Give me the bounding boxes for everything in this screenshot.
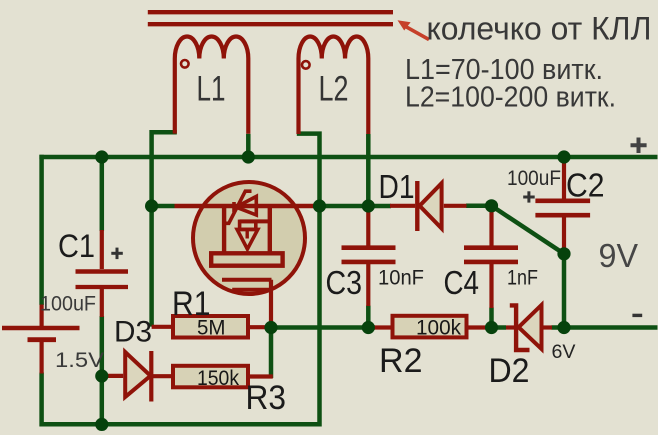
wire: C4 bottom lead [489, 308, 494, 328]
diode D1 [390, 181, 467, 231]
node C2/+rail [557, 150, 570, 163]
node C3/R2 [362, 321, 375, 334]
wire: gate node down to R1 [149, 206, 154, 327]
wire: C3 bottom lead [366, 306, 371, 328]
svg-text:D1: D1 [379, 168, 415, 205]
inductor L2 [299, 36, 369, 134]
svg-text:D2: D2 [489, 352, 530, 390]
capacitor C4 [464, 208, 518, 308]
svg-text:10nF: 10nF [378, 266, 424, 289]
wire: battery bottom / ground rail / right riser loop [42, 134, 320, 425]
svg-text:C2: C2 [566, 166, 605, 203]
transistor Q1 (MOSFET in circle) [175, 182, 318, 294]
resistor R2 100k [374, 316, 492, 338]
wire: - rail right [552, 325, 658, 330]
svg-text:D3: D3 [114, 316, 152, 349]
diode D3 [103, 351, 175, 402]
svg-text:C3: C3 [326, 264, 363, 301]
wire: C4 node to D2 [492, 325, 507, 330]
capacitor C2 [535, 158, 590, 251]
wire: left vertical (battery top) [39, 155, 44, 305]
wire: D1 cathode to C4 node [466, 204, 492, 209]
C1 plus sign [111, 248, 123, 260]
node gate left [145, 199, 158, 212]
wire: gate bus left stub [152, 204, 175, 209]
svg-text:100uF: 100uF [507, 167, 561, 190]
node D3/C1 [95, 369, 108, 382]
label + (output positive) [631, 138, 647, 154]
ferrite core (two bars) [148, 12, 393, 24]
node D1/C3 [362, 199, 375, 212]
node C2 bottom [557, 247, 570, 260]
wire: gate bus right link [317, 204, 368, 209]
node D2/- rail [557, 321, 570, 334]
svg-text:5M: 5M [197, 316, 226, 340]
wire: L2 right leg down to D1 node [366, 134, 371, 211]
svg-text:1.5V: 1.5V [55, 349, 104, 372]
battery BT1 1.5V [2, 305, 80, 374]
node drain/R1 [264, 321, 277, 334]
capacitor C3 [342, 208, 396, 306]
node gate riser [313, 199, 326, 212]
annotation arrow [398, 20, 430, 41]
svg-text:100k: 100k [416, 315, 461, 339]
svg-text:150k: 150k [197, 366, 239, 390]
svg-text:L2=100-200 витк.: L2=100-200 витк. [405, 82, 616, 114]
wire: + rail [39, 155, 657, 160]
node D1/C4 [485, 199, 498, 212]
wire: diagonal C4 node to C2 node [492, 206, 565, 254]
wire: C2 bottom node down to - rail [562, 254, 567, 328]
node L1/+rail [242, 150, 255, 163]
svg-text:1nF: 1nF [507, 266, 538, 289]
svg-text:C1: C1 [58, 228, 95, 264]
node C4/D2 [485, 321, 498, 334]
wire: D1 anode stub [368, 204, 391, 209]
resistor R1 5M [152, 316, 271, 338]
wire: L1 left leg step down [152, 132, 177, 206]
svg-text:колечко от КЛЛ: колечко от КЛЛ [427, 11, 652, 47]
wire: C3 node to R2 [368, 325, 375, 330]
wire: mid rail (drain node to C3 node) [271, 325, 368, 330]
svg-text:L2: L2 [319, 70, 349, 109]
node C1/ground rail [95, 418, 108, 431]
svg-text:R3: R3 [246, 379, 287, 417]
svg-text:R2: R2 [379, 342, 423, 380]
wire: L1 right leg to + rail [246, 134, 251, 157]
capacitor C1 [76, 230, 129, 317]
svg-text:C4: C4 [444, 264, 480, 301]
label - (output negative) [632, 314, 642, 317]
svg-text:9V: 9V [599, 237, 639, 274]
wire: C1 top lead [100, 157, 105, 231]
diode D2 [506, 305, 552, 350]
C2 plus sign [523, 191, 535, 202]
inductor L1 [175, 37, 249, 134]
wire: drain pin down [269, 280, 273, 328]
wire: R3 output riser [269, 330, 274, 378]
wire: C1 bottom to ground rail [100, 316, 105, 424]
svg-text:6V: 6V [552, 341, 576, 363]
node C1/+rail [95, 150, 108, 163]
resistor R3 150k [173, 366, 273, 388]
svg-text:100uF: 100uF [40, 291, 96, 315]
svg-text:L1: L1 [197, 70, 226, 109]
